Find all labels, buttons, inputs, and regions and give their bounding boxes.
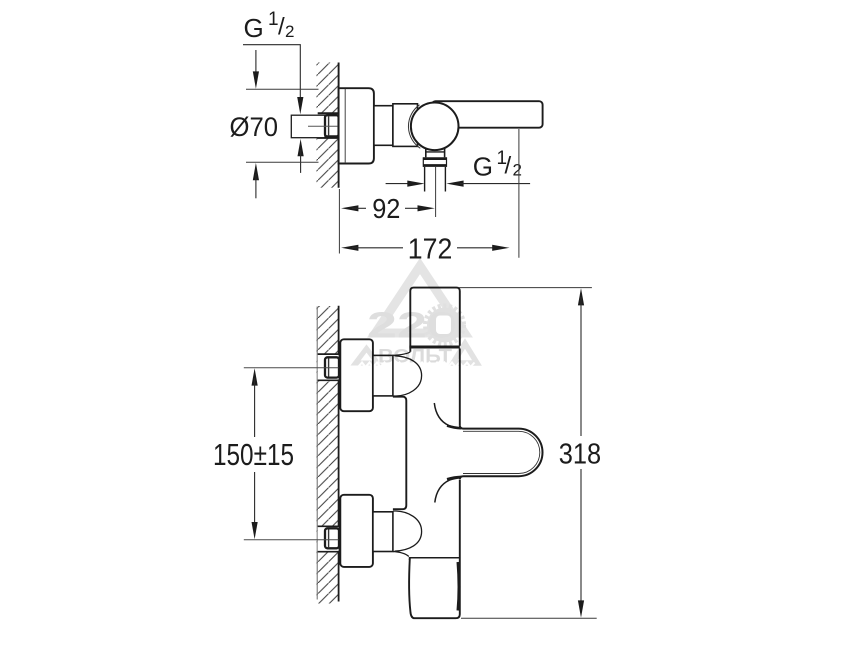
label G1/2 outlet [473,148,522,182]
upper S-union escutcheon [340,339,373,411]
leader G1/2 top [243,45,300,108]
spout tip extension line [518,129,520,258]
G1/2 outlet arrows [386,181,530,187]
body right edge lower segment [459,480,461,559]
outlet centerline [435,167,437,217]
lower S-union escutcheon [340,495,373,567]
svg-text:G: G [244,13,264,43]
label G1/2 top-left [244,9,295,43]
spout (front view) [460,425,543,479]
wall face line (top view) [338,63,340,188]
svg-text:318: 318 [559,439,601,471]
watermark 220 VOLT logo [356,266,478,368]
valve knob circle [408,103,458,151]
wall hole for supply [317,113,339,138]
lever handle bar [432,101,543,128]
bottom block of body [409,559,460,619]
ext line body bottom [461,617,597,619]
svg-text:Ø70: Ø70 [230,112,279,142]
wall union nut [325,115,339,136]
svg-text:150±15: 150±15 [213,437,294,472]
arrow G1/2 down to pipe [297,97,303,114]
upper union nut [325,357,339,377]
upper union neck [373,355,393,396]
svg-text:92: 92 [372,193,400,224]
dimension 172 [341,233,509,265]
outlet collar [423,157,446,167]
ext line escutcheon top [246,88,319,90]
ext line upper nut center [244,367,339,369]
dia70 lower arrow [253,163,259,198]
ext line body top [459,287,592,289]
svg-text:/: / [505,153,512,180]
escutcheon (top view) [339,88,374,163]
wall face line (bottom view) [338,306,340,602]
lower union neck [373,512,393,552]
wall hatching (top view) [317,63,339,188]
dia70 upper arrow [253,50,259,89]
spout lower hook [435,477,461,503]
upper union boss [393,352,422,396]
svg-text:172: 172 [408,233,453,265]
svg-text:2: 2 [513,161,522,180]
lower union nut [325,528,339,548]
svg-text:/: / [278,14,285,41]
body section 1 [374,106,393,146]
wall hole upper union [318,354,340,380]
svg-text:G: G [473,152,493,182]
dimension 92 [341,193,435,224]
shower outlet neck [426,147,445,158]
wall hole lower union [318,526,340,551]
wall back line (bottom view) [316,307,318,600]
dimension 150+-15 [213,368,294,539]
svg-text:1: 1 [268,9,279,30]
outlet pipe G1/2 [425,167,446,192]
arrow G1/2 up to pipe bottom [298,139,304,173]
body right edge upper segment [459,349,461,426]
supply centerline [308,125,338,127]
svg-text:2: 2 [285,22,294,41]
ext line lower nut center [244,539,339,541]
dimension 318 [559,288,601,618]
wall extension line below [338,189,340,254]
ext line escutcheon bottom [246,161,319,163]
mid-body left edge with steps [393,397,406,510]
wall hatching (bottom view) [317,306,339,604]
body section 2 [393,104,418,147]
spout upper hook [434,403,461,428]
supply pipe stub behind wall [291,115,325,138]
top block of body [409,288,459,352]
lower union boss [393,511,422,557]
